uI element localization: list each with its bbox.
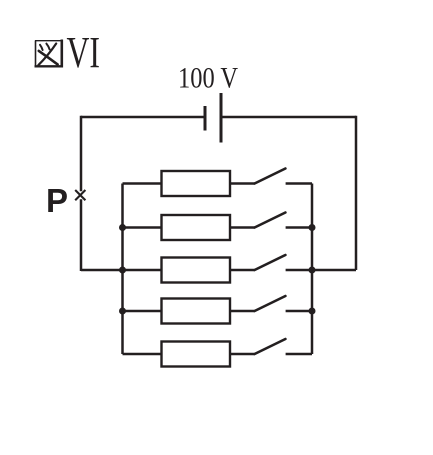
figure label 図VI (35, 28, 101, 77)
node P marker (75, 190, 85, 200)
wire branch4 left lead (123, 310, 162, 313)
wire branch5 contact lead (286, 353, 312, 356)
junction dot right branch4 (309, 308, 316, 315)
wire branch2 to switch (230, 226, 255, 229)
svg-text:VI: VI (67, 28, 101, 77)
junction dot left branch4 (119, 308, 126, 315)
wire branch4 to switch (230, 310, 255, 313)
wire left horizontal to bus (81, 269, 123, 272)
left bus wire (121, 184, 124, 355)
junction dot right branch2 (309, 224, 316, 231)
wire branch3 to switch (230, 269, 255, 272)
switch S3 blade (255, 255, 286, 270)
wire branch2 left lead (123, 226, 162, 229)
wire right vertical (355, 116, 358, 270)
junction dot left branch2 (119, 224, 126, 231)
wire right horizontal to bus (312, 269, 356, 272)
right bus wire (311, 184, 314, 355)
wire branch2 contact lead (286, 226, 312, 229)
wire left vertical (80, 116, 83, 192)
svg-text:100 V: 100 V (178, 62, 238, 95)
wire branch4 contact lead (286, 310, 312, 313)
switch S1 blade (255, 169, 286, 184)
wire branch1 contact lead (286, 182, 312, 185)
wire left vertical lower (80, 199, 83, 271)
wire top left (81, 116, 205, 119)
switch S4 blade (255, 296, 286, 311)
switch S5 blade (255, 339, 286, 354)
wire branch1 left lead (123, 182, 162, 185)
svg-text:P: P (46, 182, 68, 219)
wire branch5 left lead (123, 353, 162, 356)
resistor R3 (162, 258, 231, 283)
wire branch1 to switch (230, 182, 255, 185)
resistor R5 (162, 342, 231, 367)
junction dot left branch3 (119, 267, 126, 274)
resistor R1 (162, 171, 231, 196)
wire branch5 to switch (230, 353, 255, 356)
wire branch3 contact lead (286, 269, 312, 272)
resistor R4 (162, 299, 231, 324)
battery positive plate (220, 93, 223, 143)
junction dot right branch3 (309, 267, 316, 274)
label 100 V (178, 62, 238, 95)
battery negative plate (204, 106, 207, 131)
resistor R2 (162, 215, 231, 240)
switch S2 blade (255, 213, 286, 228)
wire top right (221, 116, 356, 119)
wire branch3 left lead (123, 269, 162, 272)
